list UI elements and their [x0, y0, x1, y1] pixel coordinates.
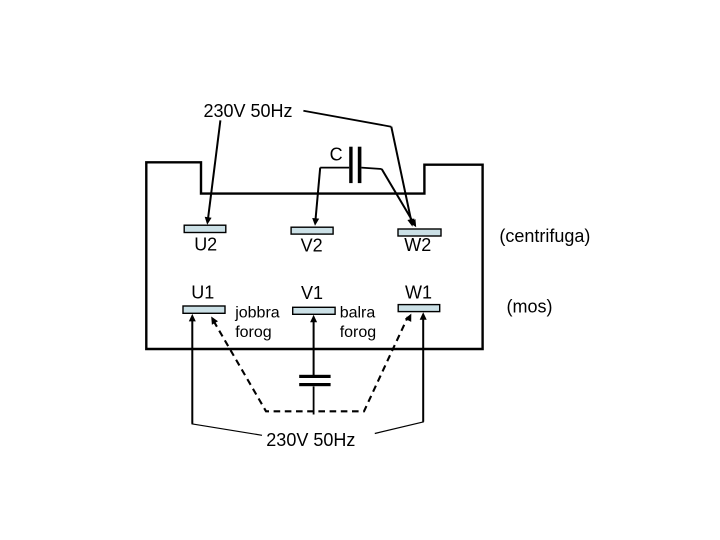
svg-text:V1: V1 [301, 283, 323, 303]
svg-text:U1: U1 [191, 283, 214, 303]
svg-text:C: C [330, 145, 343, 165]
svg-text:230V 50Hz: 230V 50Hz [204, 101, 293, 121]
svg-text:forog: forog [235, 324, 271, 341]
svg-text:W1: W1 [405, 283, 432, 303]
svg-text:230V 50Hz: 230V 50Hz [266, 430, 355, 450]
svg-text:jobbra: jobbra [234, 305, 280, 322]
svg-text:W2: W2 [404, 235, 431, 255]
svg-text:U2: U2 [194, 234, 217, 254]
svg-text:(mos): (mos) [507, 296, 553, 316]
svg-text:balra: balra [340, 305, 376, 322]
svg-text:V2: V2 [301, 236, 323, 256]
svg-text:(centrifuga): (centrifuga) [499, 226, 590, 246]
svg-text:forog: forog [340, 324, 376, 341]
